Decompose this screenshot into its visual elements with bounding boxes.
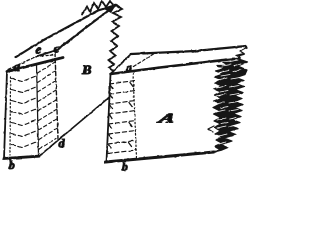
block A top front edge — [111, 59, 235, 74]
block A left vertical edge — [107, 74, 111, 162]
slab B inner dotted hidden edge — [9, 77, 12, 155]
svg-text:d: d — [59, 136, 66, 150]
slab B hidden dashed edge a-e — [8, 57, 36, 70]
svg-text:a: a — [126, 61, 132, 75]
svg-text:e: e — [36, 42, 42, 57]
slab B top face back edge — [36, 50, 57, 57]
torn fracture descent — [109, 5, 123, 74]
svg-text:a: a — [14, 59, 21, 74]
split line d — [39, 98, 109, 157]
block A top face left edge — [111, 54, 132, 74]
torn right end of block A: black mass — [213, 48, 248, 153]
block A bottom edge — [106, 152, 215, 162]
block A split strip hatching — [108, 81, 136, 154]
dotted trail to b — [9, 159, 11, 163]
torn mass lower tail — [214, 140, 223, 153]
white striations inside torn mass — [216, 56, 244, 145]
split lath lower edge — [57, 5, 116, 50]
slab B side face hatching — [38, 62, 58, 149]
slab B dashed right edge — [55, 53, 58, 140]
slab B face divider edge — [37, 64, 39, 156]
slab B bottom front edge — [4, 156, 39, 158]
block A hidden dotted edge — [133, 73, 137, 158]
block A hidden dashed split line on top — [134, 53, 156, 67]
svg-text:c: c — [54, 41, 60, 56]
split lath upper edge — [16, 5, 116, 57]
slab B top face front edge — [7, 58, 63, 72]
block A top face back edge — [131, 46, 247, 54]
svg-text:B: B — [81, 62, 92, 77]
split lath torn tip spikes — [82, 1, 116, 15]
slab B front face hatching — [12, 76, 37, 148]
block A strip fibre ticks — [108, 83, 133, 149]
slab B front-left vertical edge — [4, 72, 7, 159]
svg-text:b: b — [122, 162, 128, 174]
torn mass left spur — [208, 126, 214, 132]
slab B dashed line e-c — [41, 55, 53, 56]
split lath tip shading — [104, 5, 116, 13]
